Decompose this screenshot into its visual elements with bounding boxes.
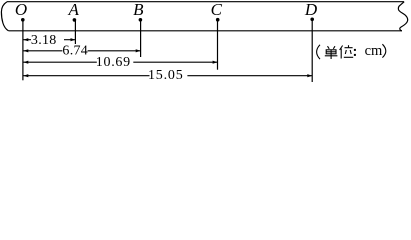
svg-text:A: A [68,0,80,19]
extension line below C [217,20,219,70]
svg-text:C: C [211,0,223,19]
svg-text:3.18: 3.18 [31,33,57,48]
dimension O-D line right piece with arrow [187,74,312,77]
svg-text:O: O [15,0,27,19]
dimension O-A line right piece with arrow [64,38,75,41]
point B dot [139,18,143,22]
extension line below A [74,20,76,44]
svg-text:10.69: 10.69 [96,55,131,70]
point D dot [310,18,314,22]
extension line below O [22,20,24,80]
svg-text:15.05: 15.05 [148,68,184,83]
unit note close paren [382,44,385,57]
svg-text:cm: cm [365,43,383,59]
unit note fullwidth colon [354,49,356,56]
extension line below B [140,20,142,57]
svg-text:D: D [304,0,318,19]
tape bottom edge [9,30,403,32]
dimension O-B line left piece with arrow [23,49,62,52]
tape torn left edge [1,2,8,31]
dimension O-B line right piece with arrow [88,49,141,52]
tape top edge [7,1,404,3]
tape torn right edge [398,2,407,31]
point C dot [216,18,220,22]
dimension O-C line left piece with arrow [23,61,96,64]
unit note open paren [317,45,320,59]
unit note hanzi dan (single) [325,46,338,59]
extension line below D [311,20,313,82]
dimension O-D line left piece with arrow [23,74,149,77]
point A dot [73,18,77,22]
svg-text:B: B [133,0,144,19]
svg-text:6.74: 6.74 [62,43,88,58]
unit note hanzi wei (position) [340,45,354,58]
dimension O-A line left piece with arrow [23,38,31,41]
point O dot [21,18,25,22]
dimension O-C line right piece with arrow [133,61,217,64]
